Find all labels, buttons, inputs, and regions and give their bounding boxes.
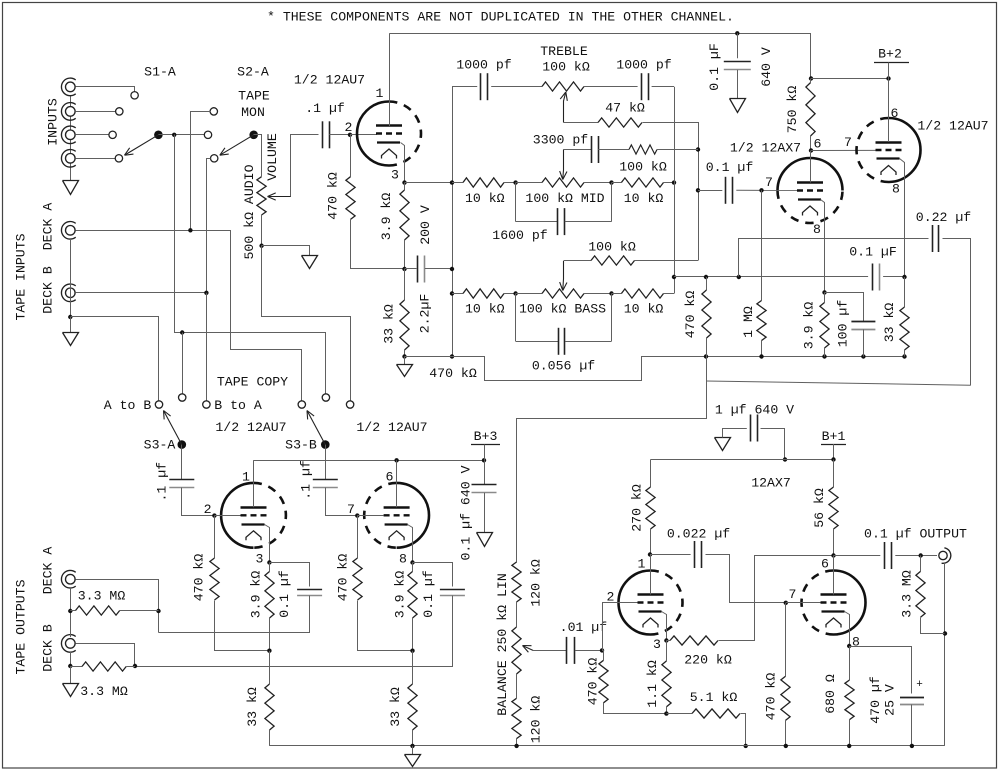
tape output jack deck A [66, 574, 76, 584]
svg-text:3: 3 [653, 637, 661, 652]
svg-text:120 kΩ: 120 kΩ [529, 559, 544, 607]
capacitor 0.1 uF cathode feed [872, 264, 874, 291]
capacitor 0.1 uf coupling [725, 177, 727, 204]
capacitor .1 uf S3-B [325, 445, 327, 480]
volume wiper arrow [269, 196, 291, 198]
tape input jack deck B [66, 288, 76, 298]
resistor 10 kohm bass right [612, 293, 622, 295]
node grid V6 [784, 601, 788, 605]
cathode lead V3 [265, 525, 270, 563]
potentiometer 100k BASS [516, 293, 542, 295]
triode V6 12AX7-B output [834, 571, 866, 635]
resistor 10 kohm mid right [612, 182, 622, 184]
tape output shell bus [70, 588, 72, 637]
wire [657, 149, 698, 151]
node V4 grid [355, 513, 359, 517]
treble wiper arrow [563, 101, 565, 123]
resistor 3.9 kohm V4 [412, 563, 414, 572]
node 33k bottom right [902, 354, 906, 358]
resistor 3.3 Mohm output [920, 556, 922, 572]
bass wiper arrow [563, 261, 565, 279]
triode V4 1/2 12AU7 (tape B) [397, 483, 429, 548]
svg-text:DECK B: DECK B [41, 624, 56, 672]
svg-text:470 kΩ: 470 kΩ [764, 673, 779, 721]
wire deck A input to copy switch [76, 231, 302, 401]
resistor 5.1 kohm [666, 713, 692, 715]
svg-text:3.3 MΩ: 3.3 MΩ [78, 589, 126, 604]
switch S3-B wiper arm [307, 411, 325, 445]
svg-text:3.9 kΩ: 3.9 kΩ [393, 571, 408, 619]
wire jack2 to S1 contact 2 [75, 111, 115, 113]
switch S1-A contact 4 [115, 155, 122, 162]
mid wiper arrow [563, 150, 565, 171]
wire deck B to S3-A contact [206, 293, 208, 401]
resistor 3.3 Mohm deck B [70, 666, 82, 668]
node 470k bottom [704, 354, 708, 358]
switch S1-A wiper arm [125, 135, 159, 155]
resistor 3.9 kohm 12AX7 cathode [822, 290, 826, 294]
plate lead V5 [650, 555, 652, 595]
svg-text:1/2 12AU7: 1/2 12AU7 [294, 73, 365, 88]
svg-text:470 kΩ: 470 kΩ [683, 291, 698, 339]
cathode lead 12AX7 [821, 200, 825, 293]
wire mid row from V1 cathode [452, 182, 463, 184]
svg-text:470 kΩ: 470 kΩ [429, 366, 477, 381]
node V4 33k bottom [410, 744, 414, 748]
svg-text:100 kΩ: 100 kΩ [619, 160, 667, 175]
svg-text:6: 6 [891, 106, 899, 121]
resistor 56 kohm plate load B [833, 460, 835, 488]
node S1 bus junction [172, 133, 176, 137]
svg-text:200 V: 200 V [418, 205, 433, 245]
capacitor 470 uf 25 V electrolytic [850, 647, 912, 694]
wire treble row left [452, 86, 477, 88]
node mid row right [609, 180, 613, 184]
triode V3 1/2 12AU7 (tape A) [221, 483, 253, 548]
wire grid V6 [786, 602, 821, 604]
capacitor .01 uf [566, 637, 568, 664]
wire 0.1uF to cathode node [883, 276, 904, 278]
wire cap to grid node [329, 134, 350, 136]
svg-text:1/2 12AX7: 1/2 12AX7 [730, 141, 801, 156]
resistor 10 kohm bass left [463, 289, 504, 298]
svg-text:2: 2 [204, 502, 212, 517]
node 12AU7-2 cathode [902, 275, 906, 279]
input jack J3 [66, 130, 76, 140]
capacitor 0.1 uf 640 V (B+3 bypass) [484, 460, 486, 484]
svg-text:3: 3 [391, 168, 399, 183]
node cathode bypass left [402, 267, 406, 271]
resistor 470 kohm grid leak V6 [785, 603, 787, 676]
node 470uf bottom [910, 744, 914, 748]
svg-text:VOLUME: VOLUME [265, 133, 280, 181]
node plate B [831, 553, 835, 557]
svg-text:TAPE OUTPUTS: TAPE OUTPUTS [14, 579, 29, 674]
node 1M bottom [759, 354, 763, 358]
svg-text:6: 6 [821, 557, 829, 572]
plate lead 12AX7 [810, 151, 812, 183]
svg-text:3: 3 [256, 552, 264, 567]
svg-text:+: + [916, 679, 923, 691]
plate lead V6 [833, 556, 835, 595]
capacitor 0.056 uf [515, 294, 517, 342]
switch S1-A wiper common [154, 131, 163, 140]
wire cathode to tone mid row [405, 182, 453, 184]
svg-text:8: 8 [399, 552, 407, 567]
wire deck B input [75, 292, 206, 294]
plate lead V3 [253, 460, 255, 507]
wire bass row left [452, 293, 463, 295]
resistor 470 kohm grid leak V1 [346, 177, 355, 220]
node output ground A tap [68, 609, 72, 613]
svg-text:0.1 µF: 0.1 µF [849, 244, 896, 259]
resistor 750 kohm plate load [810, 79, 812, 83]
capacitor 1000pf left [480, 73, 482, 100]
resistor 680 ohm cathode V6 [849, 646, 851, 680]
ground (decoupling) [730, 99, 746, 113]
node 33k bottom [402, 354, 406, 358]
balance wiper arrow [524, 646, 533, 650]
svg-text:25 V: 25 V [883, 684, 898, 716]
svg-text:1000 pf: 1000 pf [616, 58, 671, 73]
svg-text:750 kΩ: 750 kΩ [785, 86, 800, 134]
tape output jack deck B [66, 639, 76, 649]
node V4 cathode [410, 560, 414, 564]
svg-text:1600 pf: 1600 pf [492, 228, 547, 243]
resistor 470 kohm V3 grid leak [214, 516, 216, 558]
potentiometer TREBLE 100k [542, 82, 584, 91]
resistor 3.9 kohm cathode V1 [404, 183, 406, 190]
svg-text:640 V: 640 V [759, 47, 774, 87]
resistor 470 kohm (tone output) [706, 277, 708, 290]
node 3300pf row [696, 147, 700, 151]
svg-text:47 kΩ: 47 kΩ [605, 101, 645, 116]
svg-text:TAPE: TAPE [238, 88, 270, 103]
plate lead V4 [396, 460, 398, 507]
capacitor 0.1 uf V4 output [413, 563, 453, 587]
cathode lead V6 [845, 612, 850, 647]
resistor 1.1 kohm cathode V5 [666, 641, 668, 661]
wire [598, 149, 629, 151]
wire S2 contact4 to deck B line [207, 159, 211, 293]
svg-text:100 kΩ: 100 kΩ [542, 60, 590, 75]
svg-text:7: 7 [844, 135, 852, 150]
switch S3-B contact left [298, 401, 305, 408]
svg-text:220 kΩ: 220 kΩ [684, 652, 732, 667]
node V3 cathode bottom [267, 649, 271, 653]
wire sloped feedback line [706, 381, 971, 385]
node 470k top [704, 275, 708, 279]
potentiometer BALANCE 250k LIN [512, 627, 521, 674]
tone stack left rail [452, 87, 454, 357]
tape input shell bus [70, 239, 72, 317]
triode V1 1/2 12AU7 [357, 102, 389, 166]
wire volume wiper to coupling cap [291, 135, 319, 197]
svg-text:8: 8 [892, 182, 900, 197]
switch S1-A contact 3 [109, 131, 116, 138]
wire output shell down [944, 563, 946, 746]
svg-text:6: 6 [814, 137, 822, 152]
svg-text:100 kΩ MID: 100 kΩ MID [525, 191, 604, 206]
switch S3-B contact middle [322, 394, 329, 401]
svg-text:8: 8 [813, 222, 821, 237]
node B+2 rail [809, 76, 813, 80]
switch S3-A contact left [155, 401, 162, 408]
svg-text:470 µf: 470 µf [868, 676, 883, 724]
capacitor 0.022 uf coupling [650, 554, 691, 556]
bottom ground rail [270, 745, 945, 747]
svg-text:* THESE COMPONENTS ARE NOT DUP: * THESE COMPONENTS ARE NOT DUPLICATED IN… [267, 10, 734, 25]
node output cap tap [919, 553, 923, 557]
resistor 470 kohm V4 grid leak [357, 516, 359, 558]
wire balance wiper [533, 650, 567, 652]
svg-text:680 Ω: 680 Ω [823, 674, 838, 714]
svg-text:DECK A: DECK A [41, 203, 56, 251]
resistor 47 kohm [598, 118, 642, 127]
resistor 470 kohm grid leak V5 [602, 650, 604, 652]
resistor 100 kohm bass bypass [564, 260, 592, 262]
svg-text:.1 µf: .1 µf [155, 462, 170, 502]
svg-text:1: 1 [242, 470, 250, 485]
wire tape input ground to S3-A contact [71, 317, 159, 401]
switch S1-A contact 2 [116, 108, 123, 115]
svg-text:6: 6 [386, 470, 394, 485]
svg-text:A to B: A to B [104, 398, 152, 413]
input jack shell bus wire [70, 95, 72, 181]
node V6 cathode [847, 644, 851, 648]
resistor 120 kohm upper [512, 562, 521, 602]
cathode lead V1 [401, 143, 405, 183]
node bass row left [513, 291, 517, 295]
wire to 12AU7 plate [811, 78, 889, 80]
node 470k V6 bottom [784, 744, 788, 748]
resistor 120 kohm lower [512, 698, 521, 738]
svg-text:0.1 µf: 0.1 µf [277, 570, 292, 618]
svg-text:1/2 12AU7: 1/2 12AU7 [215, 420, 286, 435]
node V1 cathode [402, 180, 406, 184]
capacitor 100 uf cathode bypass [825, 293, 864, 322]
svg-text:2: 2 [345, 120, 353, 135]
svg-text:270 kΩ: 270 kΩ [630, 484, 645, 532]
node V5 cathode [664, 638, 668, 642]
svg-text:0.1 µf OUTPUT: 0.1 µf OUTPUT [864, 526, 967, 541]
svg-text:1 µf 640 V: 1 µf 640 V [715, 403, 794, 418]
svg-text:1/2 12AU7: 1/2 12AU7 [917, 119, 988, 134]
svg-text:7: 7 [789, 587, 797, 602]
resistor 33 kohm 12AU7-2 cathode [904, 277, 906, 307]
svg-text:TREBLE: TREBLE [540, 44, 588, 59]
node output ground B tap [68, 664, 72, 668]
node coupling row [696, 188, 700, 192]
potentiometer 100k MID [516, 182, 542, 184]
svg-text:1.1 kΩ: 1.1 kΩ [645, 660, 660, 708]
svg-text:0.1 µf: 0.1 µf [421, 570, 436, 618]
resistor 100 kohm mid bypass [629, 145, 657, 154]
wire 470k bottom to cathode bypass node [351, 220, 405, 269]
plate lead 12AU7-2 [888, 79, 890, 143]
svg-text:B+1: B+1 [822, 429, 846, 444]
wire [504, 182, 516, 184]
svg-text:MON: MON [241, 105, 265, 120]
svg-text:.1 µf: .1 µf [299, 460, 314, 500]
svg-text:7: 7 [765, 175, 773, 190]
svg-text:DECK A: DECK A [41, 547, 56, 595]
svg-text:1: 1 [638, 557, 646, 572]
svg-text:TAPE COPY: TAPE COPY [217, 375, 288, 390]
wire S1 common bus to S2 contact 3 [158, 134, 204, 136]
svg-text:10 kΩ: 10 kΩ [624, 191, 664, 206]
svg-text:12AX7: 12AX7 [751, 476, 791, 491]
input jack J4 [66, 154, 76, 164]
capacitor 0.1 uf V3 output [270, 563, 310, 587]
svg-text:33 kΩ: 33 kΩ [382, 304, 397, 344]
wire to 12AX7 grid [736, 189, 797, 191]
svg-text:0.1 µf: 0.1 µf [706, 160, 754, 175]
svg-text:B+2: B+2 [878, 47, 902, 62]
wire deck B output feed [76, 644, 135, 667]
resistor 1 Mohm grid leak [761, 190, 763, 300]
svg-text:INPUTS: INPUTS [46, 98, 61, 146]
svg-text:S3-A: S3-A [144, 438, 176, 453]
node tape input ground [68, 315, 72, 319]
switch S3-A wiper arm [164, 411, 182, 445]
capacitor 1600 pf [515, 183, 517, 222]
svg-text:0.1 µf 640 V: 0.1 µf 640 V [459, 465, 474, 560]
wire jack3 to S1 contact 3 [75, 134, 109, 136]
node deck B output tap [133, 664, 137, 668]
svg-text:100 kΩ: 100 kΩ [588, 240, 636, 255]
svg-text:33 kΩ: 33 kΩ [245, 687, 260, 727]
svg-text:3.9 kΩ: 3.9 kΩ [379, 193, 394, 241]
svg-text:2.2µF: 2.2µF [418, 294, 433, 334]
wire mid cap row [564, 149, 592, 151]
svg-text:7: 7 [347, 502, 355, 517]
wire main ground bus with jog [405, 357, 905, 381]
svg-text:10 kΩ: 10 kΩ [465, 191, 505, 206]
node volume bottom [259, 244, 263, 248]
svg-text:S1-A: S1-A [144, 65, 176, 80]
wire deck A output feed [76, 580, 159, 633]
wire down to S3-A middle contact [182, 333, 184, 394]
ground (tape outputs) [70, 666, 72, 684]
wire grid V5 [603, 603, 638, 651]
switch S2-A wiper arm [220, 135, 254, 155]
switch S2-A contact tape-mon [210, 108, 217, 115]
svg-text:BALANCE 250 kΩ LIN: BALANCE 250 kΩ LIN [495, 573, 510, 715]
wire jack1 to S1 contact 1 [76, 87, 135, 92]
switch S1-A contact 1 [131, 92, 138, 99]
svg-text:470 kΩ: 470 kΩ [326, 172, 341, 220]
capacitor 0.1 uf output [834, 555, 881, 557]
svg-text:100 kΩ BASS: 100 kΩ BASS [519, 302, 606, 317]
switch S3-A wiper common [178, 440, 187, 449]
wire volume bottom [261, 215, 263, 246]
svg-text:470 kΩ: 470 kΩ [336, 554, 351, 602]
capacitor 0.1uF 640V decoupling [737, 33, 739, 58]
B+1 rail [651, 459, 834, 461]
resistor 33 kohm V3 [269, 651, 271, 684]
wire [584, 86, 638, 88]
tape input jack deck A [66, 226, 76, 236]
svg-text:0.022 µf: 0.022 µf [667, 527, 730, 542]
switch S2-A wiper common [249, 131, 258, 140]
resistor 3.9 kohm V3 [269, 563, 271, 572]
wire jack4 to S1 contact 4 [75, 158, 115, 160]
resistor 220 kohm coupling [666, 640, 670, 642]
node output grid A [600, 648, 604, 652]
svg-text:10 kΩ: 10 kΩ [465, 302, 505, 317]
svg-text:120 kΩ: 120 kΩ [529, 696, 544, 744]
svg-text:B+3: B+3 [474, 429, 498, 444]
switch S3-A contact middle [179, 394, 186, 401]
ground (input jacks) [63, 181, 79, 195]
svg-text:1/2 12AU7: 1/2 12AU7 [356, 420, 427, 435]
tone stack right rail [674, 87, 676, 294]
ground (tape inputs) [70, 317, 72, 332]
node deck B tap [204, 291, 208, 295]
svg-text:1 MΩ: 1 MΩ [741, 306, 756, 338]
cathode lead V5 [662, 612, 667, 641]
svg-text:470 kΩ: 470 kΩ [586, 658, 601, 706]
node plate A [648, 552, 652, 556]
svg-text:8: 8 [852, 635, 860, 650]
node 680 bottom [847, 744, 851, 748]
svg-text:56 kΩ: 56 kΩ [812, 488, 827, 528]
node 3.3M bottom [943, 631, 947, 635]
svg-text:3.3 MΩ: 3.3 MΩ [900, 570, 915, 618]
plate lead V1 to top rail [389, 33, 391, 126]
svg-text:B to A: B to A [214, 398, 262, 413]
node V5 cathode bottom [664, 711, 668, 715]
wire S2 common to volume top [254, 135, 262, 177]
ground (volume) [302, 256, 318, 269]
ground (tone stack) [404, 357, 406, 365]
triode 1/2 12AX7 (second stage) [778, 158, 843, 191]
svg-text:33 kΩ: 33 kΩ [388, 687, 403, 727]
potentiometer VOLUME 500k [257, 177, 266, 215]
svg-text:500 kΩ AUDIO: 500 kΩ AUDIO [242, 164, 257, 259]
node deck A output tap [156, 609, 160, 613]
switch S2-A contact 4 [211, 155, 218, 162]
capacitor 1000pf right [641, 73, 643, 100]
cathode lead V4 [408, 525, 413, 563]
svg-text:S2-A: S2-A [237, 65, 269, 80]
node 1M grid leak tap [759, 188, 763, 192]
capacitor 3300 pf [591, 136, 593, 163]
wire volume bottom to S3-B contact [262, 246, 351, 401]
triode 1/2 12AU7 (third stage) [889, 118, 921, 182]
svg-text:.1 µf: .1 µf [305, 101, 345, 116]
node deck A tap [188, 228, 192, 232]
svg-text:1000 pf: 1000 pf [456, 58, 511, 73]
svg-text:0.056 µf: 0.056 µf [532, 359, 595, 374]
svg-text:470 kΩ: 470 kΩ [192, 554, 207, 602]
svg-text:.01 µf: .01 µf [560, 620, 608, 635]
B+3 rail [254, 460, 485, 462]
node tape copy feed split [180, 330, 184, 334]
wire [491, 86, 542, 88]
resistor 3.3 Mohm deck A [70, 610, 75, 612]
input jack J1 [66, 82, 76, 92]
switch S3-B contact right [346, 401, 353, 408]
node 3.9k bottom [822, 354, 826, 358]
output connector [939, 551, 947, 559]
node decoupling cap tap [735, 31, 739, 35]
wire grid node into tube V1 [350, 134, 377, 136]
switch S2-A contact 3 (from S1 bus) [204, 131, 211, 138]
node B+1 rail cap tap [783, 457, 787, 461]
ground (B+3) [477, 533, 493, 547]
